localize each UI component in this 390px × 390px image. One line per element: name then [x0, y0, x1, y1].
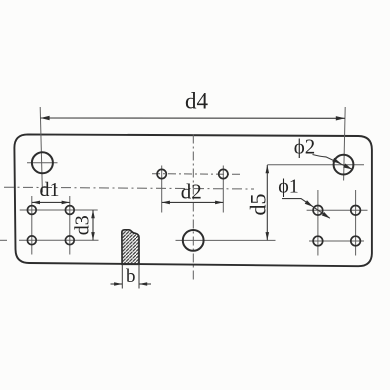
- phi1 arrow far: [322, 212, 331, 219]
- stub centerline left edge: [0, 239, 7, 241]
- svg-text:d2: d2: [181, 179, 202, 203]
- right pattern hole 3: [313, 236, 323, 246]
- dimension d4 right arrow: [336, 116, 345, 120]
- hole center: [183, 230, 204, 251]
- middle hole right: [219, 169, 228, 178]
- hole top-left centerlines: [27, 107, 58, 193]
- dimension d1 left arrow: [32, 201, 40, 205]
- plate outline: [14, 134, 372, 266]
- right pattern hole 1: [313, 206, 323, 216]
- dimension d3 bottom arrow: [91, 232, 95, 240]
- dimension b right arrow: [139, 282, 147, 286]
- dimension d1 right arrow: [62, 201, 70, 205]
- dimension b left arrow: [114, 282, 122, 286]
- left pattern hole 1: [27, 206, 36, 215]
- hole top-left: [32, 152, 53, 173]
- right pattern hole 4: [351, 236, 361, 246]
- dimension d2 left arrow: [162, 201, 170, 205]
- right pattern centerlines: [307, 190, 368, 256]
- svg-text:d3: d3: [72, 215, 94, 235]
- dimension d4 line: [40, 117, 345, 119]
- dimension b right line: [139, 283, 151, 285]
- dimension d2 line: [162, 201, 224, 203]
- vertical centerline: [192, 135, 194, 281]
- left pattern hole 3: [27, 236, 36, 245]
- middle pair centerlines: [162, 166, 224, 213]
- dimension d4 left arrow: [40, 116, 49, 120]
- dimension d2 right arrow: [215, 201, 223, 205]
- svg-text:b: b: [126, 266, 136, 287]
- svg-text:ϕ1: ϕ1: [278, 176, 299, 198]
- dimension d3 top arrow: [91, 210, 95, 218]
- dimension b left line: [111, 283, 123, 285]
- phi2 arrow near: [332, 158, 341, 164]
- keyway hatch section: [122, 230, 139, 264]
- left pattern hole 4: [65, 236, 74, 245]
- left pattern hole 2: [65, 206, 74, 215]
- main horizontal centerline: [4, 187, 254, 189]
- svg-text:d1: d1: [40, 179, 60, 201]
- middle hole left: [157, 169, 166, 178]
- dimension b extension lines: [122, 264, 139, 288]
- phi1 arrow near: [305, 200, 314, 207]
- dimension d5 bottom arrow: [266, 232, 270, 240]
- dimension d1 line: [32, 201, 70, 203]
- middle row centerline: [152, 173, 240, 176]
- right pattern hole 2: [351, 206, 361, 216]
- hole center horizontal centerline: [176, 239, 276, 241]
- dimension d3 line: [92, 210, 94, 240]
- svg-text:d5: d5: [246, 194, 271, 216]
- svg-text:ϕ2: ϕ2: [294, 135, 316, 159]
- dimension d5 top arrow: [266, 165, 270, 173]
- dimension d5 line: [266, 165, 268, 240]
- phi2 arrow far: [343, 164, 352, 170]
- phi1 leader: [282, 199, 330, 219]
- svg-text:d4: d4: [185, 89, 209, 114]
- hole top-right: [334, 155, 354, 175]
- phi2 leader: [313, 155, 352, 170]
- left pattern centerlines: [19, 196, 99, 255]
- hole top-right centerlines: [267, 107, 364, 181]
